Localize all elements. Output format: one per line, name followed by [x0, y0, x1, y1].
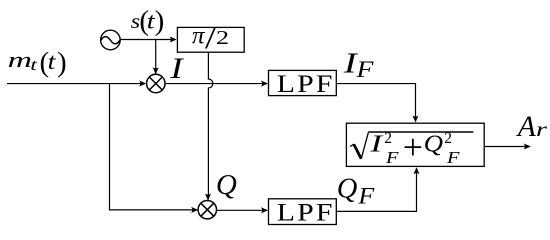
label pi/2 — [192, 21, 229, 55]
svg-text:): ) — [57, 47, 67, 79]
svg-text:m: m — [8, 47, 32, 72]
svg-text:2: 2 — [216, 27, 229, 49]
label A_r — [516, 111, 548, 143]
svg-text:I: I — [169, 52, 184, 85]
wire pi/2 down to multiplier Q with hop — [208, 52, 213, 199]
box LPF top — [269, 70, 337, 95]
svg-text:r: r — [536, 119, 548, 141]
svg-text:Q: Q — [216, 169, 237, 201]
svg-text:A: A — [516, 111, 537, 143]
svg-text:2: 2 — [384, 130, 392, 147]
label s(t) — [131, 5, 165, 37]
arrowhead into multiplier I — [139, 81, 146, 87]
label I_F — [343, 48, 374, 83]
box pi/2 — [177, 27, 244, 52]
arrowhead down into multiplier I — [153, 67, 159, 74]
oscillator — [101, 30, 121, 50]
svg-text:t: t — [48, 48, 57, 74]
wire main input line — [7, 83, 145, 85]
arrowhead into multiplier Q — [191, 207, 198, 213]
box sqrt — [346, 123, 484, 166]
box LPF bottom — [269, 199, 337, 225]
svg-text:I: I — [369, 130, 384, 158]
svg-text:/: / — [205, 21, 216, 55]
svg-text:π: π — [192, 22, 206, 49]
arrowhead into top LPF — [261, 81, 268, 87]
svg-text:LPF: LPF — [277, 198, 335, 226]
arrowhead into bottom LPF — [261, 207, 268, 213]
svg-text:Q: Q — [424, 130, 443, 157]
wire bottom LPF up to sqrt box — [336, 168, 416, 211]
wire multiplier Q to bottom LPF — [217, 209, 267, 211]
arrowhead up into sqrt box — [413, 167, 419, 174]
label Q_F — [337, 174, 375, 210]
svg-text:F: F — [357, 184, 375, 210]
svg-text:F: F — [446, 149, 460, 168]
wire branch down to multiplier I — [155, 40, 157, 74]
arrowhead down into multiplier Q — [205, 194, 211, 201]
radical sign in sqrt box — [350, 132, 473, 159]
multiplier Q — [198, 201, 216, 219]
svg-text:F: F — [355, 57, 373, 82]
svg-text:+: + — [403, 127, 423, 167]
svg-text:F: F — [385, 149, 399, 168]
svg-text:Q: Q — [337, 174, 358, 205]
arrowhead into pi/2 box — [170, 36, 177, 42]
label m_t(t) — [8, 47, 67, 79]
arrowhead down into sqrt box — [412, 116, 418, 123]
wire top LPF to sqrt box — [336, 84, 415, 122]
svg-text:t: t — [30, 57, 38, 74]
wire output Ar — [484, 146, 530, 148]
wire junction branch down and along bottom — [110, 83, 198, 210]
svg-text:2: 2 — [444, 130, 452, 147]
multiplier I — [147, 74, 165, 92]
label sqrt expression — [369, 127, 460, 168]
wire oscillator output to pi/2 box — [120, 39, 175, 41]
svg-text:): ) — [155, 5, 165, 37]
wire multiplier I to top LPF — [165, 83, 267, 85]
arrowhead output Ar — [524, 143, 531, 149]
svg-text:LPF: LPF — [277, 70, 335, 98]
